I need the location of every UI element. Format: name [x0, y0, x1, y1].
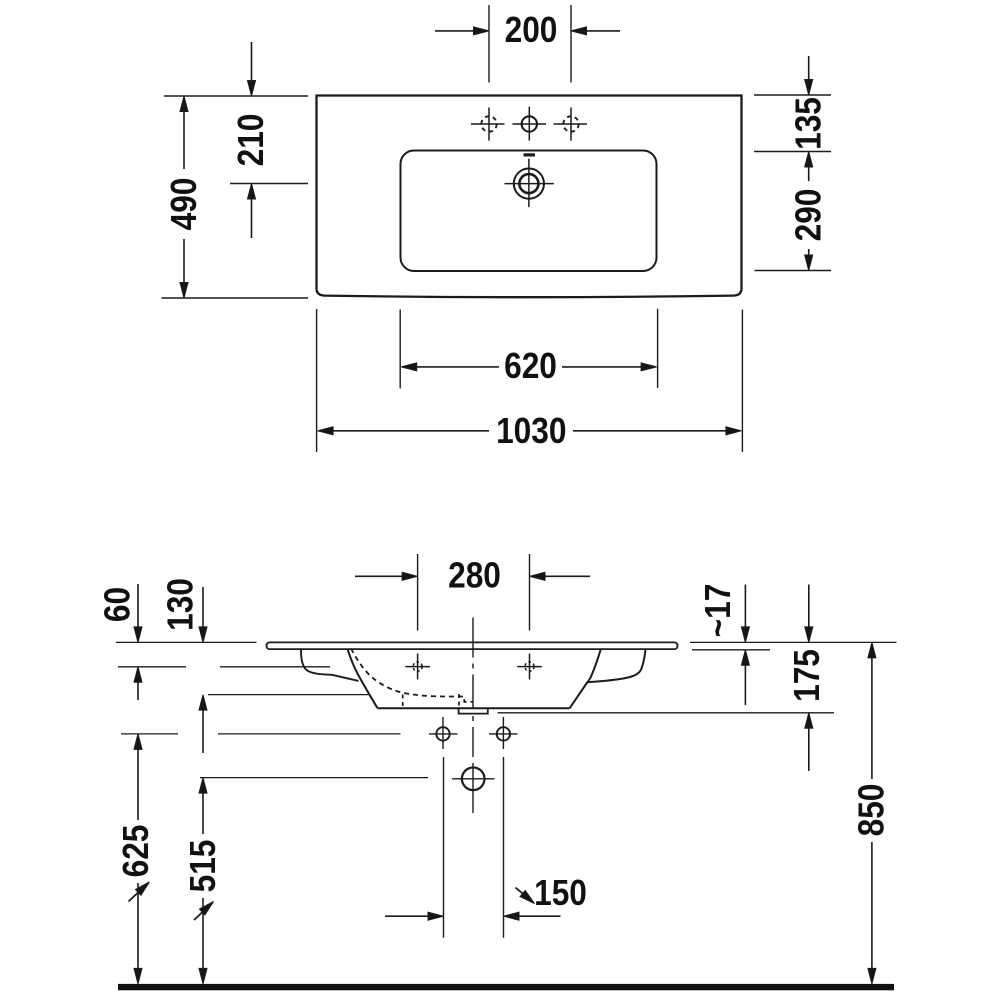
dim 175 column [808, 585, 810, 772]
dim 620 extension lines [400, 309, 657, 389]
centerline (dash-dot) [472, 618, 474, 814]
dim 515 column [202, 793, 204, 969]
left inner steep wall [348, 649, 378, 708]
dim 490 line [183, 111, 185, 283]
right-side extension lines (135/290) [754, 95, 831, 271]
drain outlet circle (elevation) [452, 768, 495, 791]
dim 490 extension lines [162, 96, 309, 298]
sink bottom line [377, 707, 569, 709]
svg-text:130: 130 [161, 578, 201, 631]
svg-text:625: 625 [116, 825, 156, 878]
label 150 [534, 873, 587, 913]
label 280 [448, 556, 501, 596]
top surface extension lines [116, 641, 897, 643]
dim 210 arrows [251, 42, 253, 238]
dim 515 leader arrow [194, 905, 211, 921]
label 490 [164, 178, 204, 231]
reference line y=734 (holes level) [121, 733, 401, 735]
dim 620 line [417, 366, 642, 368]
label 210 [231, 114, 271, 167]
dim 210 reference line [230, 183, 308, 185]
hidden dashed vertical at tab [458, 694, 460, 708]
floor line (thick) [118, 984, 894, 990]
dim 150 extension lines [444, 757, 504, 938]
svg-text:175: 175 [787, 649, 827, 702]
dim 200 extension lines [489, 5, 571, 83]
right inner steep wall [570, 649, 601, 708]
label 200 [505, 10, 558, 50]
svg-text:60: 60 [98, 587, 138, 622]
svg-text:200: 200 [505, 10, 558, 50]
label 515 [183, 840, 223, 893]
dim 1030 line [333, 430, 726, 432]
faucet hole right (dashed) [554, 108, 588, 141]
label 130 [161, 578, 201, 631]
hidden dashed vertical near drain left [402, 695, 404, 708]
svg-text:210: 210 [231, 114, 271, 167]
svg-text:620: 620 [504, 346, 557, 386]
svg-text:1030: 1030 [496, 411, 566, 451]
svg-text:850: 850 [852, 784, 892, 837]
dim 130 column [202, 587, 204, 753]
rim (side view slab) [267, 642, 678, 649]
svg-text:280: 280 [448, 556, 501, 596]
label 60 [98, 587, 138, 622]
dim ~17 column [744, 585, 746, 706]
dim 1030 extension lines [317, 309, 743, 452]
overflow slot [524, 153, 536, 156]
rim underside reference (~17) [692, 649, 770, 651]
faucet hole left (dashed) [471, 108, 505, 141]
dim 200 arrows/lines [435, 30, 620, 32]
label 625 [116, 825, 156, 878]
label 290 [789, 189, 829, 242]
drain (plan), two concentric circles + crosshair [505, 159, 554, 207]
dim 150 leader arrow [516, 888, 530, 900]
label 1030 [496, 411, 566, 451]
svg-text:150: 150 [534, 873, 587, 913]
reference line y=778 (drain level) [200, 777, 428, 779]
label ~17 [698, 584, 738, 638]
hidden bowl interior (dashed) [351, 649, 473, 702]
reference line y=712 (175 bottom) [498, 712, 835, 714]
left outer wall profile [301, 649, 359, 681]
svg-text:515: 515 [183, 840, 223, 893]
faucet cross right (elevation) [517, 654, 542, 680]
reference line y=695 [208, 694, 370, 696]
label 620 [504, 346, 557, 386]
dim 625 column [137, 749, 139, 969]
dim 625 leader arrow [129, 885, 147, 902]
mounting hole right [489, 717, 518, 749]
faucet cross left (elevation) [405, 654, 430, 680]
dim 135 / 290 arrows and stems [808, 56, 810, 255]
drain tab under bottom [459, 709, 488, 714]
dim 150 arrows [385, 915, 561, 917]
label 135 [789, 97, 829, 150]
mounting hole left [429, 717, 458, 749]
label 175 [787, 649, 827, 702]
dim 280 arrows [355, 575, 590, 577]
svg-text:490: 490 [164, 178, 204, 231]
svg-text:135: 135 [789, 97, 829, 150]
dim 850 column [871, 657, 873, 968]
reference line y=667 [118, 666, 330, 668]
svg-text:290: 290 [789, 189, 829, 242]
svg-text:~17: ~17 [698, 584, 738, 638]
dim 280 extension lines [418, 554, 530, 631]
basin inner bowl (plan, rounded rect) [401, 151, 657, 272]
right bowl curve [587, 649, 645, 682]
washbasin outer outline (plan) [317, 96, 742, 298]
label 850 [852, 784, 892, 837]
faucet hole middle (solid) [513, 107, 547, 141]
dim 60 column [137, 584, 139, 700]
